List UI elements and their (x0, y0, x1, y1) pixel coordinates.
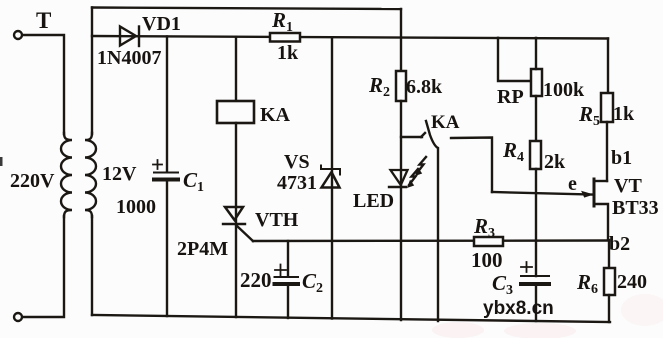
transistor VT (BT33 UJT) (582, 179, 608, 240)
capacitor C2 (275, 241, 299, 318)
resistor R3 (474, 237, 503, 246)
svg-text:R5: R5 (578, 102, 600, 129)
svg-text:1N4007: 1N4007 (97, 47, 161, 69)
svg-text:C3: C3 (492, 271, 513, 298)
svg-text:LED: LED (353, 190, 394, 212)
svg-text:VTH: VTH (255, 209, 299, 231)
svg-text:VS: VS (284, 151, 310, 173)
svg-text:C1: C1 (183, 168, 204, 195)
wire ground rail (92, 315, 610, 322)
svg-text:1k: 1k (613, 103, 635, 125)
wire secondary top riser (91, 8, 93, 135)
svg-text:e: e (568, 173, 577, 195)
svg-text:240: 240 (617, 271, 647, 293)
transformer primary winding (61, 133, 72, 217)
wire top loop to R2 column (92, 8, 401, 10)
thyristor VTH (223, 207, 253, 317)
svg-text:KA: KA (431, 112, 460, 133)
svg-text:2P4M: 2P4M (177, 238, 228, 260)
capacitor C1 (153, 36, 178, 316)
wire terminal to primary (23, 35, 64, 134)
svg-text:R1: R1 (271, 8, 293, 35)
svg-text:ybx8.cn: ybx8.cn (483, 298, 554, 319)
svg-text:C2: C2 (302, 269, 323, 296)
wire R2 column upper (400, 9, 402, 72)
svg-text:1k: 1k (277, 42, 299, 64)
wire +12V rail (92, 36, 608, 39)
svg-text:6.8k: 6.8k (406, 76, 443, 98)
svg-text:100k: 100k (543, 79, 585, 101)
potentiometer RP (498, 38, 542, 141)
scan smudge pink (504, 323, 576, 338)
svg-text:b2: b2 (609, 233, 630, 255)
svg-text:R4: R4 (502, 138, 524, 165)
svg-text:RP: RP (497, 86, 524, 108)
svg-text:KA: KA (260, 104, 291, 126)
diode VD1 (120, 27, 139, 47)
svg-text:220: 220 (240, 268, 272, 292)
svg-text:R2: R2 (368, 73, 390, 100)
resistor R2 (396, 71, 406, 187)
resistor R6 (604, 240, 615, 322)
resistor R1 (270, 33, 300, 42)
svg-text:R3: R3 (473, 214, 495, 241)
switch KA contact (401, 121, 492, 321)
wire emitter line (492, 192, 592, 195)
wire primary bottom to terminal (23, 216, 64, 317)
resistor R5 (601, 39, 613, 182)
svg-text:1000: 1000 (116, 196, 156, 218)
relay coil KA (217, 37, 254, 224)
svg-text:VD1: VD1 (142, 13, 181, 35)
svg-text:R6: R6 (576, 270, 598, 297)
scan smudge pink 2 (621, 294, 663, 326)
svg-text:2k: 2k (544, 151, 566, 173)
scan speck left edge (0, 157, 3, 166)
svg-text:VT: VT (614, 175, 642, 197)
wire VTH gate / R3 line (253, 239, 609, 242)
terminal bottom-left (14, 313, 22, 321)
wire secondary bottom to ground rail (91, 216, 93, 315)
zener VS (321, 37, 340, 318)
svg-text:12V: 12V (102, 163, 137, 185)
svg-text:b1: b1 (611, 147, 632, 169)
svg-text:4731: 4731 (277, 172, 317, 194)
capacitor C3 (521, 262, 549, 321)
LED D (389, 157, 426, 320)
svg-text:BT33: BT33 (612, 197, 659, 219)
svg-text:T: T (36, 8, 51, 33)
resistor R4 (530, 141, 541, 276)
transformer secondary winding (85, 133, 96, 217)
terminal top-left (14, 31, 22, 39)
svg-text:220V: 220V (10, 170, 55, 192)
scan smudge pink 3 (432, 322, 484, 338)
svg-text:100: 100 (471, 248, 503, 272)
